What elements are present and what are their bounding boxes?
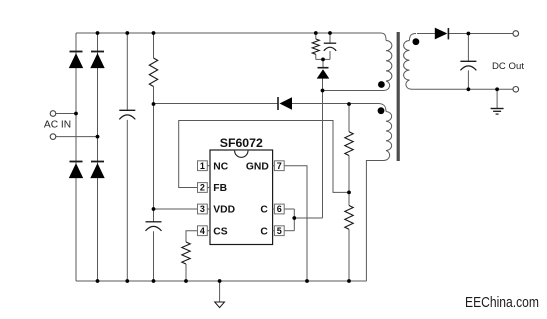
svg-text:VDD: VDD <box>213 205 235 216</box>
svg-text:C: C <box>260 226 268 237</box>
svg-text:AC IN: AC IN <box>44 120 71 131</box>
svg-text:3: 3 <box>200 204 205 214</box>
svg-text:4: 4 <box>200 226 205 236</box>
svg-text:7: 7 <box>277 161 282 171</box>
svg-text:EEChina.com: EEChina.com <box>465 295 539 311</box>
svg-text:C: C <box>260 205 268 216</box>
svg-text:2: 2 <box>200 183 205 193</box>
svg-text:GND: GND <box>246 161 269 172</box>
svg-text:5: 5 <box>277 226 282 236</box>
svg-text:FB: FB <box>213 183 227 194</box>
svg-text:CS: CS <box>213 226 227 237</box>
svg-text:SF6072: SF6072 <box>220 136 263 150</box>
svg-text:1: 1 <box>200 161 205 171</box>
svg-text:NC: NC <box>213 161 228 172</box>
svg-text:6: 6 <box>277 204 282 214</box>
svg-text:DC Out: DC Out <box>492 61 524 72</box>
